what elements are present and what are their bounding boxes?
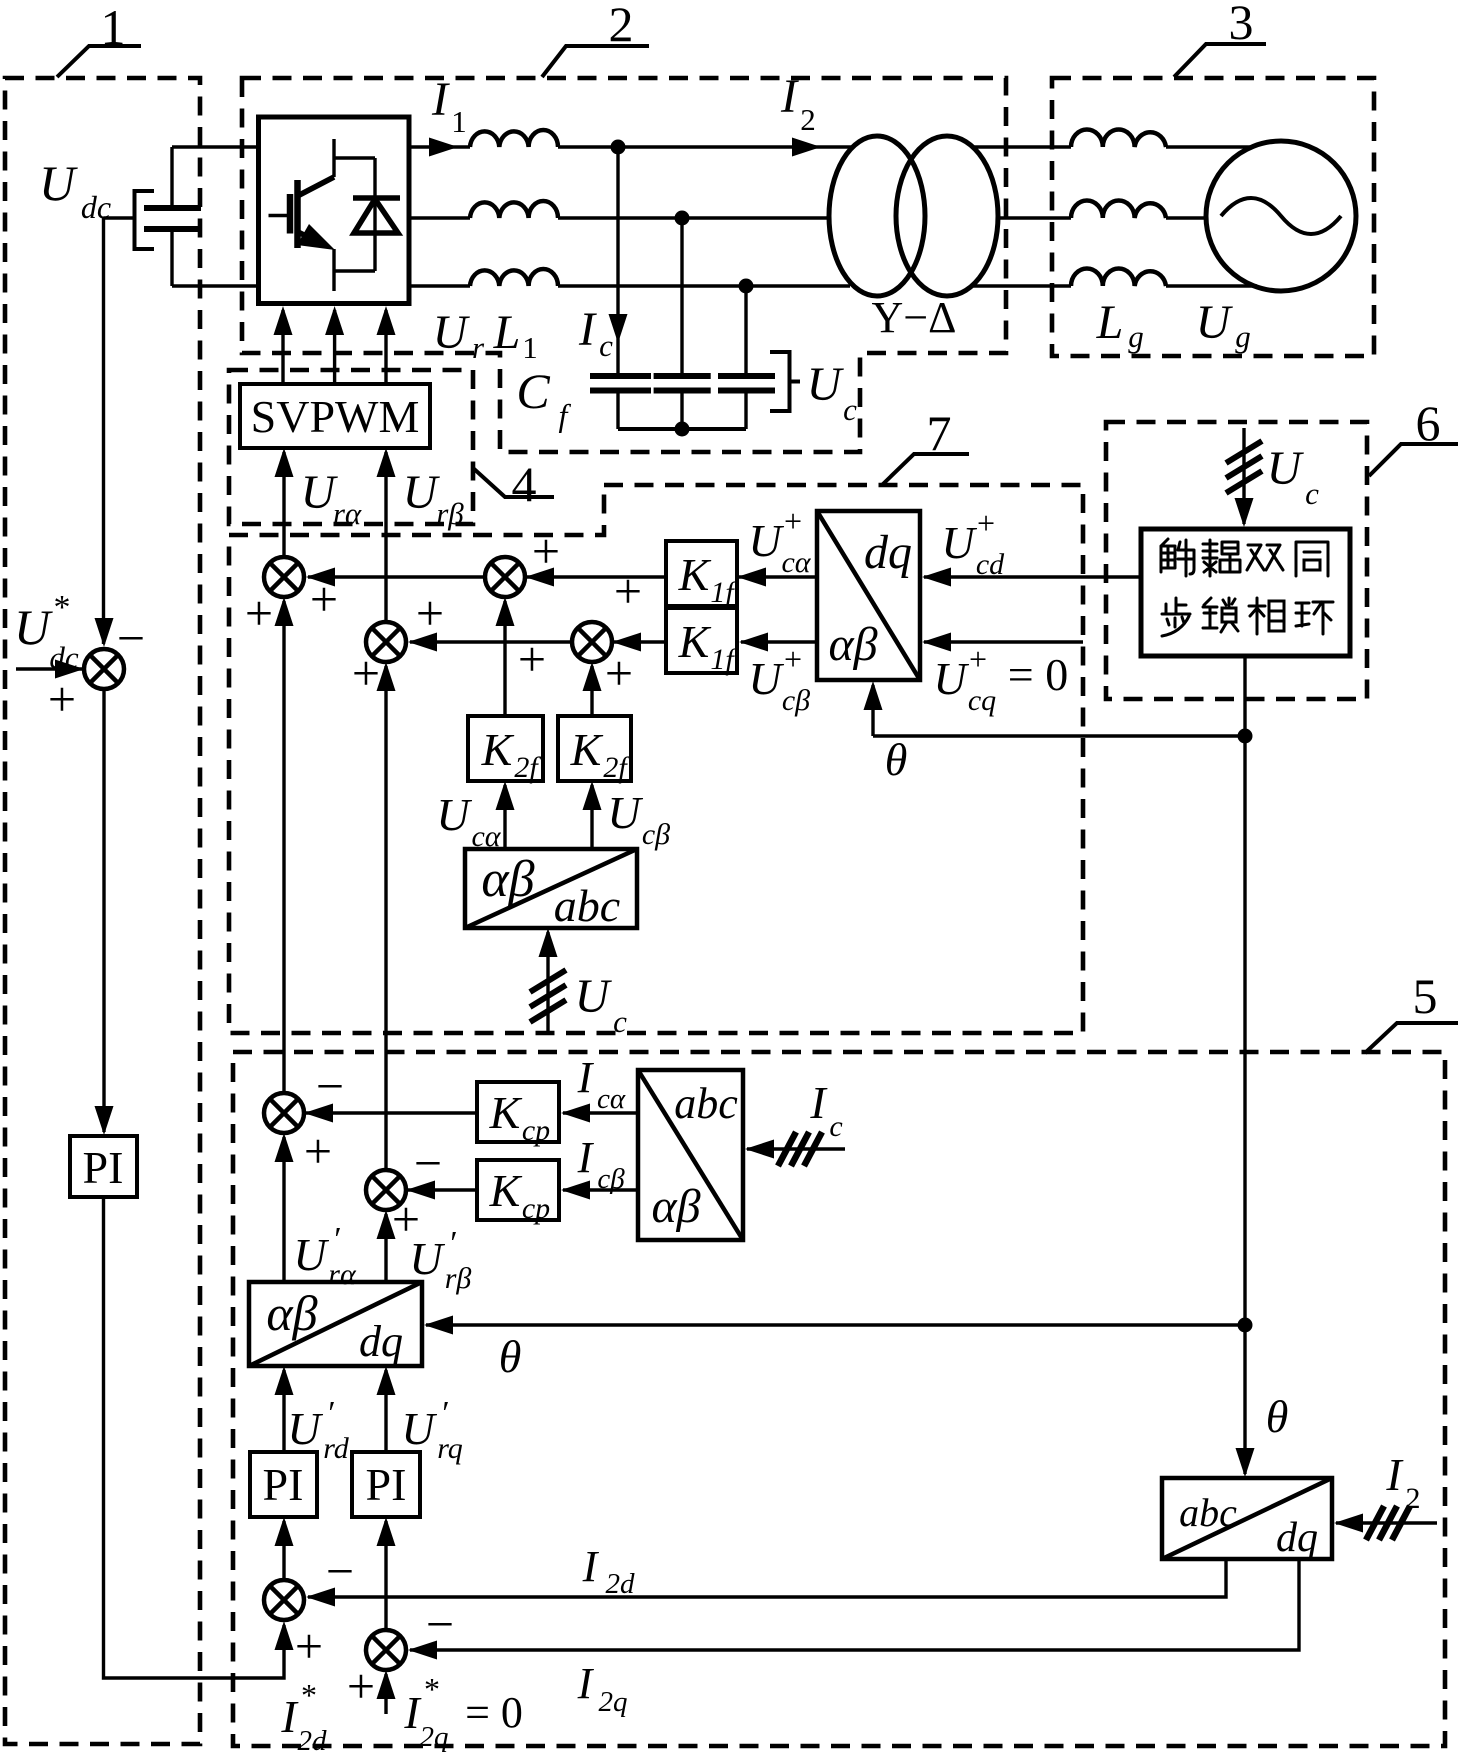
label Cf <box>516 363 571 433</box>
label Udc* reference <box>14 589 79 675</box>
label I2 (abc-dq input) <box>1385 1449 1420 1515</box>
label Uc (box7 input) <box>575 970 627 1039</box>
svg-text:U: U <box>941 517 977 568</box>
svg-text:I: I <box>578 303 597 356</box>
label leader 3 <box>1174 0 1266 77</box>
svg-text:cα: cα <box>471 820 501 853</box>
svg-text:rd: rd <box>323 1432 350 1465</box>
wire Udc feedback down <box>95 218 114 647</box>
svg-text:I: I <box>780 70 799 123</box>
capacitor bracket (Udc measurement) <box>135 191 155 249</box>
svg-text:+: + <box>347 1658 375 1714</box>
svg-text:+: + <box>977 505 995 541</box>
svg-text:+: + <box>614 563 642 619</box>
wire phase B left <box>409 216 470 219</box>
wire SVPWM gate signal c <box>377 306 396 384</box>
wire I2d feedback to SJ7 <box>306 1559 1226 1607</box>
block Kcp upper <box>477 1082 559 1147</box>
svg-text:I: I <box>577 1053 595 1102</box>
svg-text:I: I <box>431 73 450 126</box>
wire phase B to transformer <box>558 216 829 219</box>
label Udc <box>39 155 111 225</box>
label I2q <box>577 1659 628 1718</box>
svg-text:rβ: rβ <box>436 496 464 531</box>
transformer T1 primary winding <box>829 136 925 296</box>
svg-text:+: + <box>784 503 802 539</box>
SVPWM block <box>240 384 430 448</box>
wire theta into alphabeta-dq <box>424 1316 1245 1335</box>
wire phase C left <box>409 284 470 287</box>
svg-text:K: K <box>570 724 604 775</box>
grid source Ug circle <box>1206 141 1356 291</box>
wire DC bus vertical <box>170 147 173 286</box>
svg-text:rq: rq <box>437 1432 463 1465</box>
svg-text:rα: rα <box>333 496 362 531</box>
PLL text char bu4 <box>1162 598 1190 636</box>
label I2d* reference <box>280 1677 327 1757</box>
svg-text:K: K <box>489 1087 523 1138</box>
svg-text:U: U <box>575 970 613 1023</box>
wire SJ3 to SJ1 <box>306 568 485 587</box>
svg-text:+: + <box>245 585 273 641</box>
svg-text:U: U <box>409 1233 445 1284</box>
wire SJ5 up to SJ1 <box>275 597 294 1093</box>
label L1 <box>493 306 538 365</box>
svg-text:SVPWM: SVPWM <box>251 391 420 442</box>
svg-text:I: I <box>809 1077 828 1128</box>
block PI1 (DC voltage regulator) <box>70 1136 137 1197</box>
node theta branch to box5 <box>1238 1318 1253 1333</box>
svg-text:+: + <box>605 645 633 701</box>
wire capacitor legs to star point <box>618 392 746 429</box>
svg-text:αβ: αβ <box>266 1285 317 1341</box>
node phase B tap <box>675 211 690 226</box>
inductor Lg phase B <box>1071 200 1166 218</box>
label Urbeta <box>403 466 465 531</box>
svg-text:U: U <box>401 1403 437 1454</box>
block alphabeta-abc transform <box>465 849 637 931</box>
label I2d <box>582 1542 635 1600</box>
block Kcp lower <box>477 1160 559 1225</box>
block K2f left <box>468 716 543 784</box>
PLL text char xiang1 <box>1249 598 1284 634</box>
svg-text:U: U <box>748 653 784 704</box>
svg-text:2f: 2f <box>514 751 541 784</box>
label Ur <box>433 306 485 365</box>
svg-text:+: + <box>518 631 546 687</box>
wire Ucd+ input to dq block <box>922 568 1141 587</box>
node theta branch to box7 <box>1238 729 1253 744</box>
inductor L1 phase C <box>470 269 558 286</box>
wire SJ6 up to SJ2 <box>377 662 396 1170</box>
block dq-alphabeta transform <box>817 511 920 680</box>
svg-text:I: I <box>577 1659 595 1708</box>
wire DC negative rail <box>172 284 259 287</box>
svg-text:2d: 2d <box>606 1568 636 1600</box>
svg-text:r: r <box>472 330 485 365</box>
label Ic (filter current) <box>578 303 613 363</box>
wire phase C to transformer <box>558 284 850 287</box>
svg-text:PI: PI <box>366 1459 407 1510</box>
label theta (box7) <box>885 734 908 785</box>
wire SJ4 to SJ2 <box>408 633 572 652</box>
svg-text:1f: 1f <box>710 643 737 676</box>
PLL text char tong2 <box>1296 542 1328 576</box>
label leader 5 <box>1365 968 1458 1053</box>
svg-text:cβ: cβ <box>597 1163 625 1195</box>
svg-text:+: + <box>969 641 987 677</box>
label I2q* = 0 reference <box>403 1671 523 1753</box>
dashed box 5 (current loop section) <box>233 1052 1445 1746</box>
label Ucd+ <box>941 505 1005 581</box>
svg-text:U: U <box>607 787 643 838</box>
svg-text:*: * <box>301 1677 317 1713</box>
label Uc (PLL input) <box>1267 442 1319 511</box>
label Urq prime <box>401 1395 462 1465</box>
summing junction SJ4 <box>572 563 642 701</box>
label Ic (box5 input) <box>809 1077 842 1143</box>
wire SJ2 to SVPWM <box>377 448 396 622</box>
inductor Lg phase A <box>1071 129 1166 147</box>
label leader 1 <box>57 0 141 77</box>
label Ucq+ = 0 <box>933 641 1068 717</box>
svg-text:6: 6 <box>1416 395 1441 451</box>
inductor L1 phase A <box>470 130 558 147</box>
svg-text:αβ: αβ <box>651 1180 700 1233</box>
dashed box 6 (PLL section) <box>1106 422 1367 699</box>
block PI3 (q current regulator) <box>352 1452 420 1517</box>
label Ucb+ <box>748 641 810 717</box>
wire theta into dq block <box>864 681 1246 736</box>
svg-text:2d: 2d <box>298 1725 328 1757</box>
wire Ucq+ input to dq block <box>922 633 1083 652</box>
label I2 with arrow <box>780 70 821 157</box>
svg-text:3: 3 <box>1229 0 1254 50</box>
svg-text:2f: 2f <box>603 751 630 784</box>
label leader 4 <box>473 456 554 512</box>
svg-text:2q: 2q <box>599 1686 628 1718</box>
wire K1f lower to SJ4 <box>612 633 666 652</box>
svg-text:cp: cp <box>522 1192 550 1225</box>
capacitor Cf phase C <box>718 376 775 391</box>
label leader 6 <box>1369 395 1458 476</box>
svg-text:+: + <box>784 641 802 677</box>
svg-text:L: L <box>1096 296 1124 349</box>
node phase A tap <box>611 140 626 155</box>
PLL text char huan2 <box>1296 602 1333 634</box>
svg-text:1: 1 <box>451 104 467 139</box>
wire grid phase B to source <box>1166 216 1207 219</box>
wire grid phase C to source <box>1166 284 1257 287</box>
dashed box 4 (SVPWM section) <box>229 370 473 524</box>
svg-text:c: c <box>843 392 857 427</box>
capacitor Cf phase B <box>654 376 711 391</box>
label Ucb <box>607 787 670 851</box>
svg-text:′: ′ <box>328 1395 335 1432</box>
svg-text:U: U <box>287 1403 323 1454</box>
svg-text:I: I <box>280 1691 299 1742</box>
svg-text:c: c <box>1305 476 1319 511</box>
svg-text:PI: PI <box>263 1459 304 1510</box>
label Icb <box>577 1133 626 1195</box>
svg-text:+: + <box>416 585 444 641</box>
wire Kcp upper to SJ5 <box>304 1104 477 1123</box>
svg-text:U: U <box>1196 296 1234 349</box>
label Urd prime <box>287 1395 349 1465</box>
inductor L1 phase B <box>470 201 558 218</box>
svg-text:dq: dq <box>1276 1515 1318 1561</box>
wire PI3 to alphabeta-dq <box>377 1366 396 1452</box>
svg-text:= 0: = 0 <box>1008 649 1068 700</box>
svg-text:1: 1 <box>522 330 538 365</box>
svg-text:αβ: αβ <box>828 618 877 671</box>
svg-text:4: 4 <box>512 456 537 512</box>
svg-text:αβ: αβ <box>481 851 534 908</box>
svg-text:θ: θ <box>499 1331 522 1382</box>
svg-text:+: + <box>48 671 76 727</box>
wire SJ1 to SVPWM <box>275 448 294 557</box>
wire grid phase A to source <box>1166 145 1250 148</box>
svg-text:dq: dq <box>864 526 912 579</box>
PLL block (decoupled double synchronous PLL) <box>1141 529 1350 656</box>
wire dq block to K1f upper with label Uc-alpha+ <box>737 568 817 587</box>
svg-text:2: 2 <box>1406 1482 1421 1515</box>
svg-text:θ: θ <box>885 734 908 785</box>
label theta (box5) <box>499 1331 522 1382</box>
svg-text:θ: θ <box>1266 1391 1289 1442</box>
svg-text:U: U <box>436 789 472 840</box>
svg-text:abc: abc <box>1179 1490 1237 1535</box>
svg-text:*: * <box>54 589 71 626</box>
svg-text:+: + <box>304 1123 332 1179</box>
svg-text:U: U <box>748 515 784 566</box>
wire filter tap C <box>744 286 747 374</box>
block alphabeta-dq transform <box>249 1282 422 1366</box>
svg-text:I: I <box>582 1542 600 1591</box>
label I1 with arrow <box>429 73 467 157</box>
wire SJ8 to PI3 <box>377 1517 396 1630</box>
dashed box 7 (voltage feedforward section) <box>229 485 1083 1033</box>
node star point <box>675 422 690 437</box>
svg-text:cβ: cβ <box>782 684 810 717</box>
bracket Uc measurement <box>770 352 800 411</box>
svg-text:5: 5 <box>1413 968 1438 1024</box>
label Uca+ <box>748 503 811 579</box>
svg-text:U: U <box>807 358 845 411</box>
svg-text:2q: 2q <box>420 1721 449 1753</box>
wire DC positive rail <box>172 145 259 148</box>
transistor Q1 (IGBT symbol) <box>269 139 376 291</box>
PLL text char ou3 <box>1203 540 1240 576</box>
svg-text:PI: PI <box>83 1142 124 1193</box>
svg-text:= 0: = 0 <box>465 1688 523 1737</box>
summing junction SJ1 <box>245 557 338 641</box>
label Uralpha prime <box>293 1221 357 1291</box>
svg-text:cp: cp <box>522 1114 550 1147</box>
svg-text:+: + <box>352 645 380 701</box>
wire grid phase B <box>998 216 1071 219</box>
label Ica <box>577 1053 626 1115</box>
summing junction SJ5 (alpha damping) <box>264 1058 344 1179</box>
capacitor Cdc plates <box>144 208 201 229</box>
svg-text:dq: dq <box>359 1317 403 1366</box>
wire K1f upper to SJ3 <box>525 568 666 587</box>
wire I2q* reference stub <box>377 1670 396 1714</box>
summing junction SJ2 <box>352 585 444 701</box>
block K2f right <box>558 716 631 784</box>
svg-text:c: c <box>613 1004 627 1039</box>
wire PI1 output to SJ7 <box>104 1197 294 1678</box>
svg-text:U: U <box>39 155 78 211</box>
PLL text char suo3 <box>1203 598 1238 632</box>
svg-text:g: g <box>1128 319 1144 354</box>
svg-text:Y−Δ: Y−Δ <box>872 293 957 342</box>
svg-text:K: K <box>678 549 712 600</box>
block K1f lower <box>666 608 737 676</box>
svg-text:rα: rα <box>328 1258 357 1291</box>
wire phase A to transformer <box>558 145 853 148</box>
svg-text:abc: abc <box>674 1079 738 1128</box>
svg-text:K: K <box>489 1165 523 1216</box>
summing junction SJ0 (DC voltage error) <box>48 610 145 727</box>
wire SVPWM gate signal a <box>274 306 293 384</box>
svg-text:U: U <box>293 1229 329 1280</box>
block K1f upper <box>666 541 737 609</box>
svg-text:′: ′ <box>442 1395 449 1432</box>
wire K2f left to SJ3 <box>496 597 515 716</box>
label Uralpha <box>301 466 362 531</box>
svg-text:cα: cα <box>781 546 811 579</box>
wire SJ7 to PI2 <box>275 1517 294 1580</box>
svg-text:I: I <box>577 1133 595 1182</box>
svg-text:c: c <box>829 1110 842 1143</box>
wire dq block to K1f lower <box>739 633 817 652</box>
svg-text:′: ′ <box>450 1225 457 1262</box>
svg-text:U: U <box>933 653 969 704</box>
svg-text:+: + <box>295 1618 323 1674</box>
summing junction SJ7 (d current error) <box>264 1543 354 1674</box>
label Uca <box>436 789 501 853</box>
wire Udc* input <box>16 660 84 679</box>
label Lg <box>1096 296 1144 354</box>
wire abc-alphabeta to Kcp upper with label Ica <box>561 1104 638 1123</box>
label Uc (filter voltage) <box>807 358 857 427</box>
wire Kcp lower to SJ6 <box>406 1181 477 1200</box>
svg-text:c: c <box>599 328 613 363</box>
svg-text:*: * <box>424 1671 440 1707</box>
wire alphabeta-dq to SJ5 <box>275 1133 294 1282</box>
label leader 7 <box>882 405 969 485</box>
dashed box 3 (grid section) <box>1052 78 1374 356</box>
capacitor Cf phase A <box>590 376 651 391</box>
label Urbeta prime <box>409 1225 471 1295</box>
svg-text:U: U <box>1267 442 1305 495</box>
wire SVPWM gate signal b <box>325 306 344 384</box>
svg-text:−: − <box>117 610 145 666</box>
wire SJ0 to PI1 <box>95 689 114 1135</box>
label leader 2 <box>542 0 649 77</box>
wire Ic input to abc-alphabeta <box>745 1132 845 1166</box>
dashed box 1 (DC source section) <box>5 78 200 1744</box>
svg-text:U: U <box>433 306 471 359</box>
wire grid phase C <box>972 284 1071 287</box>
transformer T1 secondary winding <box>896 136 998 296</box>
svg-text:I: I <box>1385 1449 1404 1500</box>
node phase C tap <box>739 279 754 294</box>
svg-text:2: 2 <box>800 102 816 137</box>
inductor Lg phase C <box>1071 268 1166 286</box>
wire abc-alphabeta to Kcp lower with label Icb <box>561 1181 638 1200</box>
svg-text:cq: cq <box>968 684 996 717</box>
svg-text:K: K <box>678 616 712 667</box>
svg-text:abc: abc <box>554 880 620 931</box>
summing junction SJ3 <box>485 523 560 687</box>
svg-text:1: 1 <box>101 0 126 55</box>
svg-text:cβ: cβ <box>642 818 670 851</box>
summing junction SJ6 (beta damping) <box>366 1135 442 1247</box>
wire alphabeta-abc to K2f right with label Ucb <box>583 781 602 849</box>
svg-text:U: U <box>14 599 53 655</box>
svg-text:U: U <box>403 466 441 519</box>
block abc-dq transform <box>1162 1478 1332 1561</box>
inverter bridge box <box>259 117 410 304</box>
label theta (abc-dq input) <box>1266 1391 1289 1442</box>
svg-text:2: 2 <box>609 0 634 52</box>
svg-text:7: 7 <box>927 405 952 461</box>
svg-text:K: K <box>481 724 515 775</box>
wire alphabeta-abc to K2f left with label Uca <box>496 781 515 849</box>
wire phase A left <box>409 145 470 148</box>
svg-text:C: C <box>516 363 550 419</box>
wire grid phase A <box>973 145 1071 148</box>
wire alphabeta-dq to SJ6 <box>377 1210 396 1282</box>
svg-text:cd: cd <box>976 548 1005 581</box>
summing junction SJ8 (q current error) <box>347 1596 454 1714</box>
wire filter tap B <box>680 218 683 374</box>
svg-text:1f: 1f <box>710 576 737 609</box>
svg-text:−: − <box>414 1135 442 1191</box>
wire Uc input to PLL <box>1226 428 1262 527</box>
svg-text:g: g <box>1235 319 1251 354</box>
svg-text:L: L <box>493 306 521 359</box>
wire I2 input to abc-dq <box>1334 1506 1437 1540</box>
wire filter tap A with Ic arrow <box>609 147 628 374</box>
svg-text:rβ: rβ <box>445 1262 472 1295</box>
label Y-delta <box>872 293 957 342</box>
label Ug <box>1196 296 1251 354</box>
diode D1 (freewheel) <box>334 158 400 271</box>
PLL text char jie3 <box>1161 539 1194 576</box>
wire Uc input to alphabeta-abc <box>530 928 566 1032</box>
wire I2q feedback to SJ8 <box>408 1559 1299 1660</box>
svg-text:′: ′ <box>334 1221 341 1258</box>
block abc-alphabeta transform <box>638 1070 743 1240</box>
wire PI2 to alphabeta-dq <box>275 1366 294 1452</box>
dashed box 2 (inverter + LCL filter section) <box>242 78 1006 452</box>
wire Udc sense tap <box>104 216 135 219</box>
block PI2 (d current regulator) <box>250 1452 317 1517</box>
wire PLL theta output trunk <box>1236 656 1255 1477</box>
PLL text char shuang1 <box>1247 545 1283 570</box>
wire star point bus <box>618 427 746 431</box>
wire K2f right to SJ4 <box>583 662 602 716</box>
svg-text:cα: cα <box>597 1083 626 1115</box>
